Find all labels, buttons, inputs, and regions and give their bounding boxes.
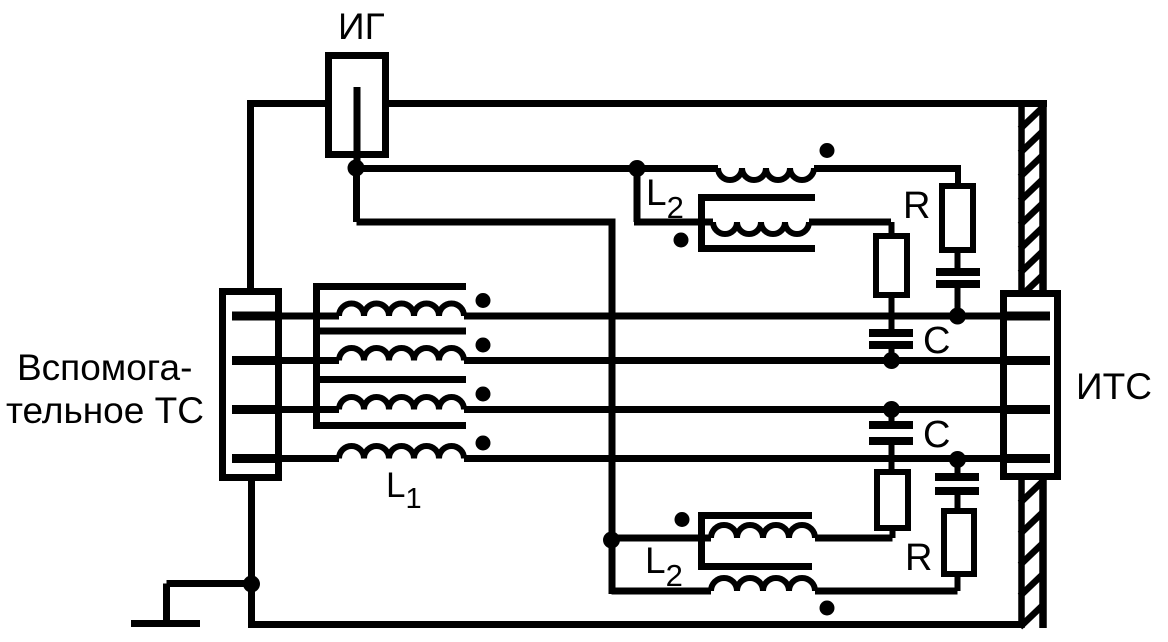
wire 3 terminal stub in TC box <box>232 405 277 414</box>
capacitor C (wires 1-2) upper plate <box>869 329 913 337</box>
wire from ground node to earth electrode <box>167 580 252 587</box>
wire earth electrode vertical <box>163 584 170 625</box>
inductor L2 (bottom) upper winding coil <box>711 525 815 538</box>
L2 (top) shield bar lower <box>698 245 815 252</box>
wire left vertical (x=250) from top corner down to auxiliary TC box <box>247 100 254 292</box>
wire capacitor to node on wire 1 <box>955 286 961 316</box>
svg-text:ИГ: ИГ <box>338 6 385 47</box>
ИГ internal electrode <box>354 87 361 165</box>
capacitor below R (top) upper plate <box>936 268 980 276</box>
wire 3 from TC box to L1 coil <box>274 406 339 413</box>
wire 1 terminal stub in TC box <box>232 312 277 321</box>
node on wire 3 (x=891) <box>883 401 900 418</box>
L2 (bottom) shield bar upper <box>698 512 812 519</box>
L1 common bar vertical <box>313 283 320 429</box>
wire capacitor C to node on wire 2 <box>889 347 895 361</box>
wire top-left horizontal from left vertical to ИГ box <box>247 100 330 107</box>
polarity dot L2 bottom upper winding <box>675 512 690 527</box>
node J1 (ИГ electrode to wire y168 and y222) <box>348 160 365 177</box>
wire y222 segment from J2 corner to L2 lower coil <box>634 219 713 226</box>
polarity dot L1 winding 4 <box>476 436 491 451</box>
wire 4 from TC box to L1 coil <box>274 455 339 462</box>
wire y222 from L2 lower coil to corner above resistor R2 <box>809 219 891 226</box>
polarity dot L1 winding 1 <box>476 293 491 308</box>
wire 2 terminal stub in ITS box <box>1000 356 1050 365</box>
L2 (bottom) shield left vertical <box>698 512 705 570</box>
wire 3 terminal stub in ITS box <box>1000 405 1050 414</box>
capacitor C (wires 3-4) upper plate <box>869 421 913 429</box>
L2 (top) shield left vertical <box>698 194 705 252</box>
capacitor C (wires 1-2) lower plate <box>869 341 913 349</box>
wire y222 from J1 to x612 vertical <box>357 219 616 226</box>
svg-text:R: R <box>903 185 930 227</box>
wire y538 from node J3 to bottom L2 upper coil <box>612 535 712 542</box>
wire y222 segment from ИГ down-tap: J1 vertical <box>353 165 360 222</box>
inductor L2 (bottom) lower winding coil <box>711 578 815 591</box>
node on wire 2 (x=891) <box>883 352 900 369</box>
wire 2 from TC box to L1 coil <box>274 357 339 364</box>
wire 4 from L1 coil to ITS box <box>464 455 1002 462</box>
node ground junction on left vertical <box>243 576 260 593</box>
wire 4 terminal stub in TC box <box>232 454 277 463</box>
L1 bar 2 <box>313 328 466 335</box>
wire capacitor down across wire 4 to resistor <box>889 443 895 472</box>
svg-text:тельное ТС: тельное ТС <box>6 390 204 431</box>
pulse generator ИГ box <box>329 56 386 155</box>
damping resistor (left, bottom) <box>877 472 908 528</box>
inductor L2 (top) lower winding coil <box>713 222 809 234</box>
capacitor below wire4 upper plate <box>935 473 979 481</box>
node on wire 1 (x=957) <box>949 308 966 325</box>
wire node to capacitor C (wires 3-4) <box>889 410 895 424</box>
inductor L1 winding 2 coil <box>339 348 464 361</box>
L1 bar 1 <box>313 283 466 290</box>
L2 (bottom) shield bar lower <box>698 563 812 570</box>
resistor R (bottom right) <box>944 511 974 574</box>
wire resistor R to capacitor (top right) <box>955 250 961 270</box>
svg-text:C: C <box>923 414 950 456</box>
wire resistor R bottom to y591 wire <box>955 574 961 591</box>
wire capacitor to resistor R (bottom) <box>955 493 961 511</box>
wire y538 from coil to corner below resistor <box>815 535 893 542</box>
wire 2 terminal stub in TC box <box>232 356 277 365</box>
wire 3 from L1 coil to ITS box <box>464 406 1002 413</box>
polarity dot L1 winding 2 <box>476 338 491 353</box>
L2 (top) shield bar upper <box>698 194 815 201</box>
capacitor C (wires 3-4) lower plate <box>869 437 913 445</box>
wire TC box bottom lead down to ground node <box>248 478 255 628</box>
earth electrode bar <box>131 620 200 627</box>
inductor L1 winding 1 coil <box>339 304 464 317</box>
wire bottom bus <box>252 621 1020 628</box>
wire y591 from x612 corner to bottom L2 lower coil <box>612 588 712 595</box>
wire long vertical x612 down to bottom L2 <box>609 219 616 594</box>
resistor R (top right) <box>942 186 973 250</box>
wire 1 terminal stub in ITS box <box>1000 312 1050 321</box>
wire 2 from L1 coil to ITS box <box>464 357 1002 364</box>
inductor L1 winding 3 coil <box>339 397 464 410</box>
svg-text:R: R <box>905 537 932 579</box>
wire resistor down to L2 bottom upper winding wire <box>890 528 896 538</box>
polarity dot L2 bottom lower winding <box>820 601 835 616</box>
wire y168 from node J1 to L2 coil <box>356 165 718 172</box>
node J3 (bottom L2 tap) <box>603 532 620 549</box>
wire 4 terminal stub in ITS box <box>1000 454 1050 463</box>
L1 bar 3 <box>313 376 466 383</box>
polarity dot L2 top lower winding <box>674 233 689 248</box>
wire resistor to capacitor C (crosses wire 1) <box>889 295 895 331</box>
polarity dot L1 winding 3 <box>476 387 491 402</box>
wire node to capacitor (bottom right) <box>955 460 961 476</box>
wall (hatched) upper segment <box>1018 100 1025 291</box>
capacitor below R (top) lower plate <box>936 280 980 288</box>
wire y168 from L2 coil to corner above R (top) <box>814 165 961 172</box>
wire corner down into damping resistor (left, top) <box>889 222 895 236</box>
wire 1 from TC box to L1 coil <box>274 313 339 320</box>
auxiliary TC box <box>223 292 279 478</box>
L1 bar 4 <box>313 422 466 429</box>
inductor L1 winding 4 coil <box>339 446 464 459</box>
wire 1 from L1 coil to ITS box <box>464 313 1002 320</box>
wire corner down to resistor R (top) <box>955 166 961 186</box>
polarity dot L2 top upper winding <box>820 143 835 158</box>
wire y591 from coil to corner below R (bottom) <box>815 588 958 595</box>
inductor L2 (top) upper winding coil <box>718 168 814 180</box>
wire vertical from node J2 down to y222 <box>634 168 641 222</box>
svg-text:ИТС: ИТС <box>1076 366 1152 407</box>
node on wire 4 (x=957) <box>949 451 966 468</box>
node J2 on wire y168 (L2 top tap) <box>629 160 646 177</box>
capacitor below wire4 lower plate <box>935 487 979 495</box>
wire top bus y=103 from ИГ box to wall <box>384 100 1047 107</box>
svg-text:Вспомога-: Вспомога- <box>17 347 192 388</box>
ITS box <box>1004 294 1058 477</box>
svg-text:C: C <box>923 320 950 362</box>
damping resistor (left, top) <box>876 236 907 295</box>
wall (hatched) lower segment <box>1018 478 1025 628</box>
